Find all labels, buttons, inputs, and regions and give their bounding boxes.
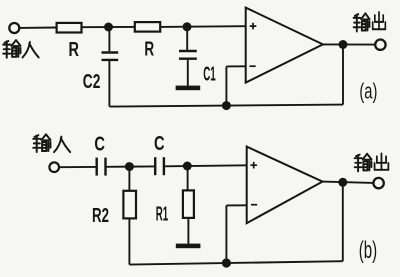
- wire input to R: [19, 27, 57, 29]
- capacitor C2 lead from node 1: [108, 27, 110, 51]
- node 2 (b): [183, 162, 192, 171]
- op-amp U1 minus sign: [250, 65, 256, 67]
- resistor R (a second): [135, 22, 160, 32]
- op-amp U2 minus sign: [251, 204, 257, 206]
- svg-text:C: C: [154, 133, 165, 155]
- capacitor C (b second) plates: [154, 157, 156, 175]
- wire input to C (b): [59, 166, 96, 168]
- svg-text:R: R: [144, 38, 154, 60]
- svg-text:C1: C1: [203, 64, 216, 86]
- feedback bottom wire (a): [109, 105, 343, 107]
- node 2 (a): [183, 22, 192, 31]
- resistor R (a first): [57, 23, 82, 33]
- output node (b): [338, 178, 347, 187]
- capacitor C1 lead from node 2: [186, 27, 188, 50]
- label 输出 (a): [354, 12, 386, 31]
- label 输出 (b): [355, 154, 389, 172]
- node 1 (b): [125, 162, 134, 171]
- feedback junction (a): [222, 101, 231, 110]
- resistor R2 lead: [128, 167, 130, 191]
- feedback riser to minus (b): [225, 205, 227, 263]
- node 1 (a): [104, 23, 113, 32]
- capacitor C2 bottom lead: [108, 61, 110, 107]
- input terminal (a): [9, 23, 19, 33]
- wire to minus input (a): [226, 65, 245, 67]
- svg-text:C: C: [94, 134, 105, 156]
- svg-text:(a): (a): [359, 79, 377, 104]
- wire op-amp output (b): [323, 182, 374, 183]
- output terminal (b): [373, 178, 383, 188]
- wire op-amp output (a): [323, 43, 375, 45]
- output terminal (a): [375, 40, 385, 50]
- capacitor C (b first) plates: [95, 158, 97, 176]
- wire node 2 to op-amp: [187, 25, 246, 28]
- resistor R2: [123, 191, 136, 219]
- input terminal (b): [49, 162, 59, 172]
- feedback wire output down (a): [342, 45, 344, 105]
- resistor R1: [183, 190, 194, 218]
- op-amp U1 triangle: [246, 8, 323, 83]
- feedback wire output down (b): [342, 182, 344, 261]
- op-amp U2 plus sign: [250, 162, 257, 169]
- wire C to node 1 (b): [107, 165, 155, 167]
- svg-text:R: R: [69, 39, 80, 61]
- capacitor C1 bottom lead: [187, 60, 189, 86]
- resistor R2 bottom lead: [128, 219, 130, 265]
- feedback bottom wire (b): [129, 261, 342, 264]
- resistor R1 bottom lead: [187, 219, 189, 244]
- feedback riser to minus (a): [225, 66, 227, 105]
- ground (a): [176, 86, 201, 91]
- ground (b): [176, 244, 201, 249]
- output node (a): [339, 40, 348, 49]
- wire C to op-amp (b): [165, 165, 247, 166]
- capacitor C2 plates: [102, 51, 119, 53]
- op-amp U1 plus sign: [250, 23, 257, 30]
- svg-text:(b): (b): [359, 238, 377, 264]
- label 输入 (b): [33, 134, 70, 152]
- wire R to node 2: [161, 26, 189, 28]
- wire R to R: [82, 26, 135, 28]
- label 输入 (a): [3, 40, 38, 58]
- op-amp U2 triangle: [247, 147, 323, 224]
- capacitor C1 plates: [179, 50, 197, 52]
- wire to minus input (b): [226, 204, 246, 206]
- svg-text:R1: R1: [156, 204, 168, 226]
- svg-text:R2: R2: [92, 205, 109, 227]
- feedback junction (b): [222, 258, 231, 267]
- svg-text:C2: C2: [83, 71, 101, 93]
- resistor R1 lead: [187, 166, 189, 190]
